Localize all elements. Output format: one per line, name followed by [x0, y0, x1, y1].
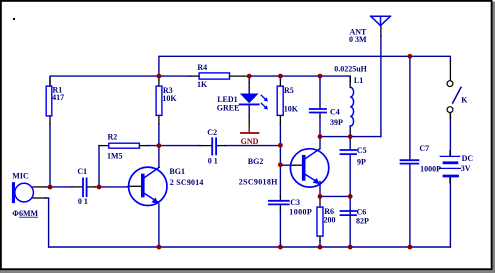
- svg-text:1000P: 1000P: [289, 207, 312, 216]
- svg-text:C7: C7: [419, 144, 429, 153]
- svg-text:10K: 10K: [284, 104, 299, 113]
- svg-text:2SC9018H: 2SC9018H: [239, 177, 278, 186]
- svg-text:GREE: GREE: [217, 104, 240, 113]
- svg-text:C2: C2: [207, 128, 217, 137]
- svg-text:C1: C1: [77, 167, 87, 176]
- svg-text:0.0225uH: 0.0225uH: [334, 64, 367, 73]
- svg-text:R2: R2: [108, 132, 118, 141]
- svg-text:1K: 1K: [197, 80, 208, 89]
- svg-text:Φ6MM: Φ6MM: [12, 209, 38, 218]
- svg-text:10K: 10K: [162, 94, 177, 103]
- svg-text:0 1: 0 1: [78, 197, 88, 206]
- svg-text:200: 200: [324, 215, 336, 224]
- svg-text:39P: 39P: [330, 118, 343, 127]
- svg-text:BG2: BG2: [248, 157, 264, 166]
- svg-text:C5: C5: [357, 146, 367, 155]
- svg-text:1M5: 1M5: [107, 152, 123, 161]
- svg-text:9P: 9P: [357, 158, 366, 167]
- svg-text:C3: C3: [290, 198, 300, 207]
- svg-text:R4: R4: [197, 63, 207, 72]
- svg-text:L1: L1: [354, 76, 363, 85]
- svg-text:2 SC9014: 2 SC9014: [170, 178, 204, 187]
- svg-text:3V: 3V: [461, 164, 471, 173]
- svg-text:DC: DC: [462, 154, 474, 163]
- svg-text:1000P: 1000P: [420, 165, 441, 174]
- svg-text:0 1: 0 1: [208, 157, 218, 166]
- svg-text:417: 417: [52, 93, 64, 102]
- svg-text:K: K: [461, 96, 468, 105]
- svg-text:R5: R5: [284, 86, 294, 95]
- svg-text:0 3M: 0 3M: [349, 35, 367, 44]
- svg-text:BG1: BG1: [169, 167, 185, 176]
- svg-text:C4: C4: [330, 107, 340, 116]
- svg-text:C6: C6: [357, 208, 367, 217]
- svg-text:82P: 82P: [356, 216, 369, 225]
- svg-text:MIC: MIC: [12, 172, 29, 181]
- svg-text:GND: GND: [241, 137, 259, 146]
